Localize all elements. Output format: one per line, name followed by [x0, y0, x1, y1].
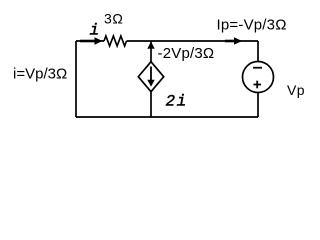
- dependent current source U1 2i: [138, 62, 163, 92]
- voltage source V1 Vp: [243, 62, 274, 93]
- svg-text:i=Vp/3Ω: i=Vp/3Ω: [13, 65, 67, 82]
- wire left: [75, 41, 77, 117]
- svg-text:i: i: [90, 22, 100, 40]
- svg-text:3Ω: 3Ω: [104, 11, 123, 27]
- svg-text:2i: 2i: [166, 93, 188, 111]
- wire bottom: [76, 116, 258, 118]
- wire right: [257, 41, 259, 117]
- polarity minus: [253, 67, 262, 69]
- current arrow Ip: [225, 37, 242, 45]
- resistor R 3ohm: [104, 36, 127, 46]
- svg-text:-2Vp/3Ω: -2Vp/3Ω: [158, 45, 215, 62]
- current arrow i: [80, 37, 103, 45]
- svg-text:Vp: Vp: [287, 82, 305, 98]
- polarity plus: [254, 81, 262, 89]
- current arrow at top node: [147, 42, 154, 49]
- wire top: [76, 40, 258, 42]
- svg-text:Ip=-Vp/3Ω: Ip=-Vp/3Ω: [217, 17, 287, 34]
- wire middle branch: [150, 41, 152, 117]
